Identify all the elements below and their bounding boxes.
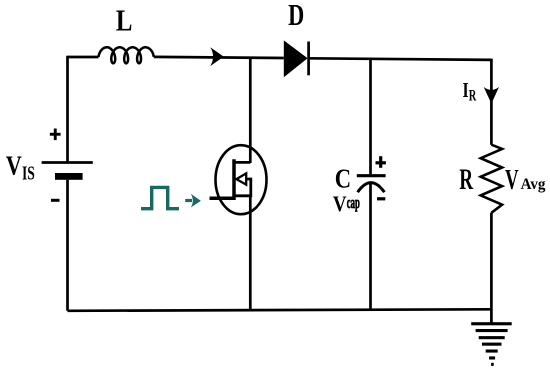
- svg-text:R: R: [459, 164, 474, 196]
- svg-text:D: D: [288, 0, 304, 32]
- svg-text:R: R: [469, 87, 477, 105]
- svg-text:V: V: [333, 193, 347, 217]
- svg-text:IS: IS: [22, 162, 35, 184]
- svg-text:L: L: [116, 4, 133, 38]
- svg-text:cap: cap: [347, 193, 360, 212]
- svg-text:V: V: [505, 164, 519, 196]
- svg-text:C: C: [335, 165, 351, 194]
- svg-text:Avg: Avg: [521, 176, 546, 194]
- svg-text:I: I: [463, 79, 469, 103]
- svg-text:V: V: [6, 151, 22, 181]
